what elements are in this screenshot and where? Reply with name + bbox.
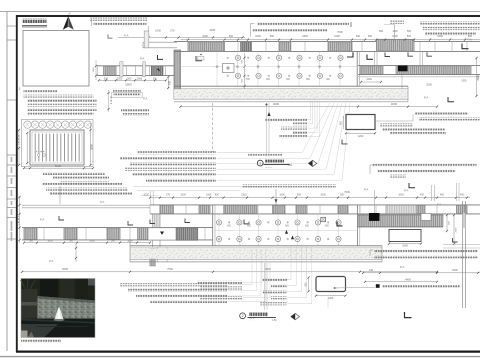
grate right dimension bbox=[90, 123, 92, 165]
d1 right band lower lines bbox=[358, 76, 480, 78]
corner brackets under band bbox=[385, 53, 390, 57]
stone bench detail rect bbox=[346, 115, 375, 130]
grate inner frame bbox=[30, 130, 84, 165]
svg-text:1840: 1840 bbox=[302, 35, 308, 38]
svg-text:8000: 8000 bbox=[265, 267, 271, 271]
d1 mini wall column bbox=[144, 31, 149, 48]
svg-text:400: 400 bbox=[440, 194, 445, 197]
section cut dashed line bbox=[212, 103, 214, 152]
svg-text:1000: 1000 bbox=[255, 35, 261, 38]
d1 left vertical dim bbox=[167, 77, 169, 88]
title strip left vertical line bbox=[6, 12, 8, 352]
svg-text:1000: 1000 bbox=[392, 35, 398, 38]
svg-text:P.A: P.A bbox=[140, 57, 144, 61]
d2 dashed flow lines bbox=[157, 247, 159, 262]
d1 pool small gray dots bbox=[216, 65, 219, 68]
svg-text:5000: 5000 bbox=[125, 83, 132, 87]
svg-text:P.A: P.A bbox=[364, 188, 368, 192]
svg-text:1000: 1000 bbox=[320, 194, 326, 197]
d1 left annotation text bbox=[90, 18, 147, 21]
d1 bottom dimension 4000 bbox=[181, 106, 438, 108]
svg-text:2000: 2000 bbox=[461, 81, 467, 83]
svg-text:2000: 2000 bbox=[402, 244, 408, 247]
d2 overall dimension line bbox=[22, 271, 437, 273]
bracket under pier bbox=[347, 52, 353, 57]
rect2 dims bbox=[316, 295, 346, 297]
drawing sheet title text bbox=[23, 18, 47, 23]
svg-text:5000: 5000 bbox=[55, 164, 62, 168]
d1 right lower wall band bbox=[358, 65, 480, 67]
title 2 leader lines bbox=[264, 263, 266, 310]
d1 left wall crossing columns bbox=[120, 62, 123, 77]
bench dims bbox=[346, 132, 375, 134]
svg-text:P.A: P.A bbox=[468, 38, 472, 42]
d2 top annotation rows bbox=[42, 183, 122, 186]
svg-text:270: 270 bbox=[166, 194, 171, 197]
d1 vertical pipes bbox=[374, 51, 376, 65]
d2 junction vertical channel bbox=[152, 214, 154, 247]
d2 lower wall band left bbox=[22, 227, 213, 229]
svg-text:1000: 1000 bbox=[47, 239, 53, 242]
svg-text:1:: 1: bbox=[19, 87, 22, 91]
d1 annotation above bbox=[257, 23, 349, 26]
d1 pool jet rings row 1 bbox=[235, 55, 240, 60]
svg-text:500: 500 bbox=[270, 35, 275, 38]
d2 junction brackets bbox=[128, 221, 133, 225]
d1 pool bottom deck bands bbox=[174, 85, 408, 87]
svg-text:270: 270 bbox=[170, 28, 175, 32]
d2 right long hatch band bbox=[358, 214, 443, 216]
svg-text:1000: 1000 bbox=[127, 239, 133, 242]
svg-text:1800: 1800 bbox=[89, 239, 95, 242]
d2 pool drain square bbox=[321, 217, 326, 221]
small plan rect near pool top-left bbox=[198, 57, 205, 61]
d2 right vertical dims bbox=[446, 215, 448, 231]
bottom pool leader text block bbox=[262, 278, 287, 281]
drawing title 1 bbox=[257, 160, 263, 166]
svg-text:4400: 4400 bbox=[405, 278, 411, 281]
svg-text:1200: 1200 bbox=[358, 135, 364, 138]
svg-text:500: 500 bbox=[407, 35, 412, 38]
d1 left wall pier 1 bbox=[104, 66, 116, 75]
d2 upper wall band bbox=[150, 204, 480, 206]
grate bottom dimension bbox=[24, 167, 93, 169]
key plan empty box bbox=[23, 31, 89, 87]
svg-text:2: 2 bbox=[242, 314, 244, 318]
d2 pool rings row1 bbox=[216, 220, 221, 225]
svg-text:500: 500 bbox=[368, 35, 373, 38]
leader row extension bbox=[248, 153, 282, 156]
d2 right top dim verticals bbox=[431, 185, 433, 201]
svg-text:P.A: P.A bbox=[124, 34, 128, 38]
svg-text:500: 500 bbox=[379, 30, 384, 33]
grate left dimension bbox=[26, 133, 28, 163]
d2 junction dark pier bbox=[176, 228, 198, 240]
svg-text:500: 500 bbox=[340, 194, 345, 197]
bottom left leader text block bbox=[120, 283, 227, 286]
svg-text:400: 400 bbox=[420, 194, 425, 197]
drawing title 2 bbox=[240, 313, 246, 319]
d1 pool jet rings row 2 bbox=[235, 73, 240, 78]
title strip cell text marks bbox=[11, 157, 13, 162]
d2 stone sill annotation bbox=[376, 284, 380, 288]
d1 pool right edge bbox=[356, 51, 358, 86]
sheet top edge line bbox=[0, 11, 480, 13]
photo of water feature bbox=[21, 279, 96, 338]
d2 right vertical wall bbox=[462, 201, 464, 308]
d2 junction white cell bbox=[148, 228, 176, 240]
title 1 leader lines bbox=[266, 103, 268, 157]
d2 pool bottom bands bbox=[130, 245, 382, 247]
d1 top wall band bbox=[174, 41, 480, 43]
svg-text:1: 1 bbox=[259, 161, 261, 165]
svg-text:7000: 7000 bbox=[337, 30, 343, 34]
svg-text:P.A: P.A bbox=[40, 218, 44, 222]
svg-text:1:50: 1:50 bbox=[288, 165, 293, 167]
photo caption bbox=[21, 340, 61, 343]
d1 top dimension line bbox=[181, 39, 480, 41]
svg-text:7500: 7500 bbox=[167, 267, 173, 271]
svg-text:P.A: P.A bbox=[404, 189, 408, 193]
svg-text:P.A: P.A bbox=[400, 265, 404, 269]
d2 pool gray dots bbox=[228, 221, 230, 223]
d1 left wall band bbox=[97, 65, 174, 67]
d2 leader arrows into pool bbox=[285, 230, 288, 234]
svg-text:3000: 3000 bbox=[209, 28, 215, 32]
stone detail rect 2 bbox=[316, 277, 346, 292]
inter-drawing vertical dim bbox=[108, 90, 110, 112]
svg-text:5300: 5300 bbox=[452, 269, 458, 272]
svg-text:1000: 1000 bbox=[392, 30, 398, 33]
svg-text:P.A: P.A bbox=[437, 203, 441, 207]
svg-text:1000: 1000 bbox=[143, 194, 149, 197]
d1 left wall lower annotation bbox=[121, 109, 149, 112]
d1 pool interior gridlines bbox=[216, 51, 218, 86]
corner bracket bottom right bbox=[405, 312, 412, 318]
d2 left frame dim bbox=[19, 197, 21, 243]
svg-text:500: 500 bbox=[69, 239, 74, 242]
svg-text:1200: 1200 bbox=[366, 78, 372, 81]
svg-text:1200: 1200 bbox=[328, 297, 334, 300]
north diamond symbol 2 bbox=[291, 313, 300, 319]
svg-text:2000: 2000 bbox=[426, 83, 432, 86]
pool leader text block bbox=[265, 118, 307, 121]
svg-text:P.A: P.A bbox=[424, 96, 428, 100]
svg-text:1000: 1000 bbox=[279, 194, 285, 197]
d1 left top dimension line bbox=[118, 36, 245, 38]
grate detail outer boundary bbox=[22, 120, 94, 167]
svg-text:500: 500 bbox=[104, 77, 109, 80]
d1 left wall annotation bbox=[113, 89, 141, 92]
svg-text:400: 400 bbox=[169, 80, 172, 85]
bottom middle leader text block bbox=[197, 281, 242, 284]
drain leader vline bbox=[401, 72, 403, 91]
d2 pool rings row2 bbox=[216, 236, 221, 241]
svg-text:P.A: P.A bbox=[49, 259, 53, 263]
d1 right vertical dimension 7000 bbox=[476, 58, 478, 96]
d2 right white rect bbox=[389, 230, 421, 242]
svg-text:P.A: P.A bbox=[100, 200, 104, 204]
svg-text:P.A: P.A bbox=[143, 97, 147, 101]
svg-text:500: 500 bbox=[127, 77, 132, 80]
d2 pool edges bbox=[212, 205, 214, 246]
north diamond symbol 1 bbox=[309, 160, 317, 166]
d2 pool gridlines bbox=[218, 214, 220, 246]
svg-text:500: 500 bbox=[297, 194, 302, 197]
svg-text:440: 440 bbox=[369, 269, 374, 272]
svg-text:2500: 2500 bbox=[62, 267, 68, 271]
svg-text:1000: 1000 bbox=[202, 35, 208, 38]
svg-text:1000: 1000 bbox=[334, 35, 340, 38]
corner bracket bbox=[158, 55, 164, 59]
svg-text:4000: 4000 bbox=[273, 102, 280, 106]
north arrow bbox=[63, 16, 69, 30]
d2 stream hatch column bbox=[150, 249, 156, 266]
d1 top wall tall pier right bbox=[377, 39, 415, 51]
svg-text:500: 500 bbox=[29, 239, 34, 242]
d1 right annotation bbox=[420, 21, 480, 24]
d2 right leader annotation bbox=[374, 249, 478, 252]
svg-text:900: 900 bbox=[215, 194, 220, 197]
svg-text:1:50: 1:50 bbox=[272, 320, 277, 322]
d2 left bottom dimension bbox=[24, 242, 150, 244]
grate slats bbox=[34, 134, 36, 162]
svg-text:1000: 1000 bbox=[398, 194, 404, 197]
svg-text:2000: 2000 bbox=[137, 77, 143, 80]
grate small outlet circles bbox=[37, 154, 40, 157]
svg-text:3000: 3000 bbox=[90, 144, 94, 150]
d2 right lower dims bbox=[363, 272, 480, 274]
svg-text:500: 500 bbox=[153, 77, 158, 80]
d1 pool left top bracket bbox=[196, 56, 202, 61]
d1 top wall piers bbox=[188, 42, 225, 51]
d2 right small white box bbox=[421, 214, 431, 221]
svg-text:500: 500 bbox=[111, 239, 116, 242]
d2 upper wall piers bbox=[160, 205, 174, 213]
left leader text block bbox=[137, 151, 216, 154]
d2 tank annotation bbox=[242, 184, 336, 187]
d1 upper mini wall bbox=[143, 41, 177, 43]
d1 left wall outer vdim bbox=[95, 60, 97, 80]
grate outer left dim marks bbox=[18, 130, 20, 165]
grate caption bbox=[43, 172, 105, 175]
svg-text:1000: 1000 bbox=[206, 194, 212, 197]
svg-text:7000: 7000 bbox=[344, 190, 350, 194]
d2 lower wall piers bbox=[24, 228, 37, 240]
svg-text:400: 400 bbox=[460, 194, 465, 197]
d2 black tank rect bbox=[369, 213, 380, 221]
d1 left wall bottom dimension bbox=[99, 79, 166, 81]
d2 upper annotation rows right bbox=[373, 164, 477, 167]
d1 left wall pier 2 dark bbox=[151, 66, 163, 76]
title strip cell dividers bbox=[7, 25, 16, 27]
d1 right band black gate rect bbox=[398, 66, 408, 72]
svg-text:1500: 1500 bbox=[241, 194, 247, 197]
d2 right lower lines bbox=[443, 243, 480, 245]
d2 annotation leader lines bbox=[133, 185, 268, 187]
stone bench leader texts bbox=[415, 112, 468, 115]
corner bracket right bbox=[462, 44, 469, 49]
svg-text:500: 500 bbox=[229, 35, 234, 38]
d1 pool inlet detail box bbox=[223, 64, 235, 73]
grate detail scallop plant row bbox=[24, 121, 31, 128]
svg-text:4000: 4000 bbox=[391, 102, 398, 106]
svg-text:1000: 1000 bbox=[155, 28, 161, 32]
svg-text:500: 500 bbox=[407, 30, 412, 33]
svg-text:500: 500 bbox=[356, 35, 361, 38]
bottom sheet separator line bbox=[0, 356, 480, 358]
d1 pool left vertical dim bbox=[244, 53, 246, 90]
svg-text:1500: 1500 bbox=[117, 77, 123, 80]
water tank label bbox=[390, 21, 404, 24]
d1 pool left textured wall bbox=[174, 50, 181, 99]
svg-text:1500: 1500 bbox=[180, 194, 186, 197]
svg-text:2000: 2000 bbox=[455, 227, 457, 233]
